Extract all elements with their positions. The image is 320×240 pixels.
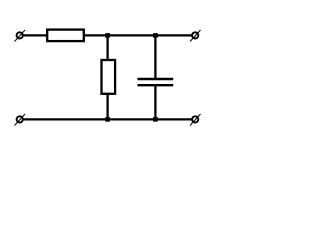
junction: bottom rail / capacitor [153,117,158,122]
junction: top rail / capacitor [153,33,158,38]
wire: top rail from input terminal to output terminal [20,34,196,36]
wire: bottom rail from lower-left terminal to lower-right terminal [20,118,196,120]
wire: capacitor bottom lead [154,84,156,119]
wire: capacitor top lead [154,35,156,79]
terminal: bottom-right [190,114,201,126]
resistor R1 (series, horizontal body) [47,30,84,41]
wire: vertical branch through shunt resistor [106,35,108,119]
terminal: top-right output [190,30,201,42]
junction: top rail / shunt resistor [105,33,110,38]
capacitor C1 plates [138,79,174,85]
junction: bottom rail / shunt resistor [105,117,110,122]
terminal: top-left input [15,30,26,42]
resistor R2 (shunt, vertical body) [102,60,116,94]
terminal: bottom-left [15,114,26,126]
